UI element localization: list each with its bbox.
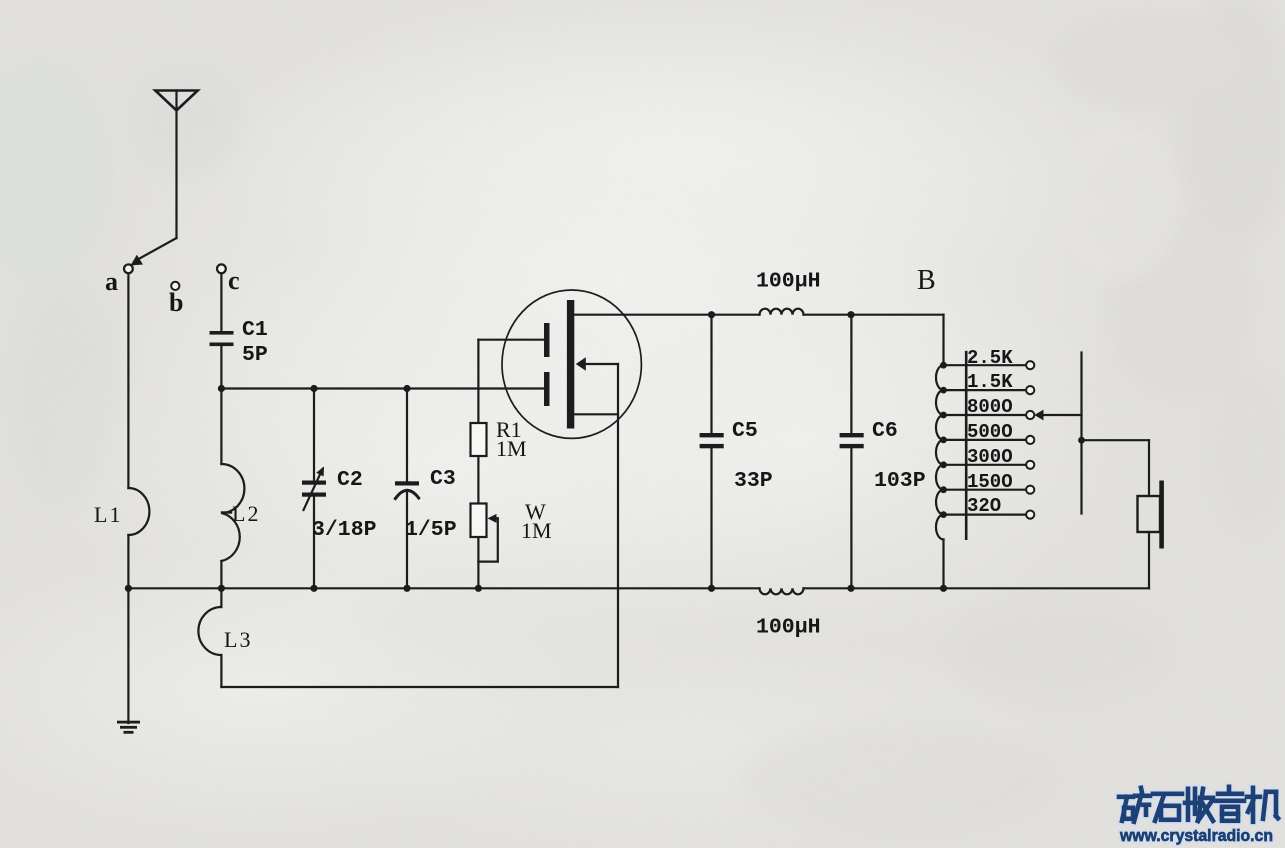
- svg-text:1M: 1M: [496, 436, 527, 461]
- svg-text:2.5K: 2.5K: [967, 347, 1013, 369]
- svg-text:1M: 1M: [521, 518, 552, 543]
- svg-text:C3: C3: [430, 467, 456, 491]
- svg-text:C2: C2: [337, 468, 363, 492]
- svg-text:100μH: 100μH: [756, 616, 821, 640]
- svg-text:5P: 5P: [242, 343, 268, 367]
- svg-text:100μH: 100μH: [756, 270, 821, 294]
- svg-text:1/5P: 1/5P: [405, 518, 457, 542]
- svg-text:B: B: [917, 265, 936, 296]
- svg-text:C5: C5: [732, 419, 758, 443]
- svg-text:L3: L3: [224, 627, 252, 652]
- svg-text:c: c: [228, 266, 240, 295]
- svg-text:33P: 33P: [734, 469, 773, 493]
- svg-text:103P: 103P: [874, 469, 926, 493]
- svg-text:www.crystalradio.cn: www.crystalradio.cn: [1119, 826, 1273, 845]
- svg-text:300O: 300O: [967, 446, 1013, 468]
- svg-text:1.5K: 1.5K: [967, 371, 1013, 393]
- svg-text:3/18P: 3/18P: [312, 518, 377, 542]
- svg-text:C6: C6: [872, 419, 898, 443]
- svg-text:150O: 150O: [967, 471, 1013, 493]
- svg-text:C1: C1: [242, 318, 268, 342]
- svg-text:32O: 32O: [967, 495, 1001, 517]
- svg-text:800O: 800O: [967, 396, 1013, 418]
- svg-text:L1: L1: [94, 502, 122, 527]
- svg-text:a: a: [105, 267, 118, 296]
- svg-text:L2: L2: [232, 501, 260, 526]
- svg-text:b: b: [169, 288, 183, 317]
- svg-text:500O: 500O: [967, 421, 1013, 443]
